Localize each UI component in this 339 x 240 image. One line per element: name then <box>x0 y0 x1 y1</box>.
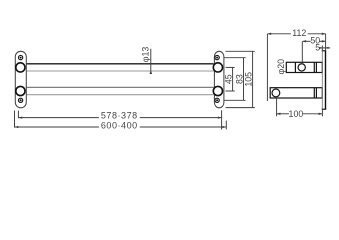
right bottom screw <box>215 98 219 102</box>
svg-text:100: 100 <box>289 109 304 119</box>
svg-text:112: 112 <box>292 28 306 38</box>
dim 100 right extension <box>321 109 323 116</box>
bottom bar side hole <box>272 89 280 97</box>
svg-text:578·378: 578·378 <box>101 111 138 121</box>
extension line plate top to 105 <box>226 50 255 52</box>
wall plate top edge <box>322 50 326 52</box>
dim 600/400 right extension <box>225 121 227 130</box>
dim 578/378 left extension <box>17 111 19 119</box>
dim 5 left tick <box>321 46 323 51</box>
extension line top screw to 83 <box>224 57 246 59</box>
left end plate <box>15 51 26 108</box>
wall plate bottom edge <box>322 108 326 110</box>
right bottom mount circle <box>213 86 222 95</box>
top bar side hole <box>298 64 305 71</box>
wall plate front face <box>321 51 323 109</box>
dim 578/378 right extension <box>221 110 223 129</box>
wall plate back face <box>325 51 327 109</box>
dim 5 line <box>320 47 330 49</box>
dim line 578.378 <box>18 117 221 119</box>
extension line bottom screw to 83 <box>224 99 246 101</box>
svg-text:45: 45 <box>224 74 234 84</box>
phi13 leader arrow <box>149 71 152 74</box>
left top screw <box>18 55 22 59</box>
dim 112 left extension <box>266 34 268 101</box>
svg-text:5: 5 <box>315 42 320 52</box>
svg-text:105: 105 <box>244 72 254 87</box>
bar 2 bottom rail bottom edge <box>25 94 214 96</box>
left top mount circle <box>16 63 25 72</box>
dim line 100 <box>277 113 323 115</box>
left bottom screw <box>18 98 22 102</box>
svg-text:600·400: 600·400 <box>101 120 138 130</box>
dim 5 arrows <box>319 47 322 49</box>
bar 1 top rail bottom edge <box>25 70 214 72</box>
bottom bar side body <box>270 88 322 98</box>
dim 600/400 left extension <box>14 111 16 128</box>
svg-text:φ20: φ20 <box>276 59 286 75</box>
dim 50 extension <box>301 42 303 63</box>
dim 45 vertical line <box>232 67 234 91</box>
phi13 leader line <box>150 49 152 74</box>
dim 105 vertical line <box>252 51 254 107</box>
dim line 600.400 <box>15 126 227 128</box>
dim line 50 <box>302 40 325 42</box>
right top screw <box>215 55 219 59</box>
dim line 112 <box>267 33 325 35</box>
dim 112 right extension <box>325 34 327 51</box>
top bar side body <box>286 62 322 72</box>
dim 83 vertical line <box>243 58 245 101</box>
svg-text:φ13: φ13 <box>141 47 151 63</box>
left bottom mount circle <box>16 86 25 95</box>
right end plate <box>214 51 224 108</box>
dim 100 left extension <box>276 98 278 117</box>
right top mount circle <box>213 63 222 72</box>
bar 1 top rail top edge <box>25 63 214 65</box>
extension line top bar to 45 <box>226 66 235 68</box>
extension line bottom bar to 45 <box>226 90 235 92</box>
bar 2 bottom rail top edge <box>25 86 214 88</box>
extension line plate bottom to 105 <box>226 107 255 109</box>
